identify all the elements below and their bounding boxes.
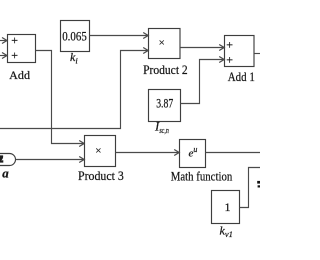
svg-text:Add 1: Add 1 xyxy=(228,69,255,84)
partial block marks at right edge xyxy=(257,181,260,188)
wire input 2 to Add xyxy=(0,53,7,59)
svg-text:Add: Add xyxy=(9,68,30,82)
wire input port to Product 3 input 2 xyxy=(16,157,85,163)
wire from left edge to Product 2 input 2 xyxy=(0,48,148,129)
wire kv1 output to right edge xyxy=(240,168,261,208)
svg-text:+: + xyxy=(11,48,18,62)
block ki gain value 0.065 xyxy=(61,21,90,52)
block Isc,n constant 3.87 xyxy=(149,90,181,122)
svg-text:1: 1 xyxy=(225,200,231,214)
wire ki output to Product 2 input 1 xyxy=(90,33,149,39)
svg-text:0.065: 0.065 xyxy=(62,28,87,43)
svg-text:Math function: Math function xyxy=(171,168,233,183)
svg-text:3.87: 3.87 xyxy=(156,97,173,111)
block Add 1 (sum) xyxy=(225,36,255,67)
block kv1 constant 1 xyxy=(212,191,240,224)
svg-text:×: × xyxy=(95,145,101,157)
wire Add output to Product 3 input 1 xyxy=(36,51,85,147)
svg-text:a: a xyxy=(2,166,9,181)
wire 3.87 output to Add 1 input 2 xyxy=(181,57,225,104)
svg-text:×: × xyxy=(159,37,165,49)
svg-text:+: + xyxy=(226,53,233,67)
svg-text:Product 3: Product 3 xyxy=(78,168,124,183)
block Add (sum) xyxy=(8,33,36,63)
block Math function exp xyxy=(180,140,206,168)
wire Math function output stub xyxy=(206,152,261,154)
svg-text:+: + xyxy=(226,37,233,51)
wire Product 3 output to Math function input xyxy=(116,150,180,156)
svg-text:+: + xyxy=(11,33,18,47)
wire input 1 to Add xyxy=(0,38,7,44)
input port oval (port 2) xyxy=(0,154,16,166)
svg-text:Product 2: Product 2 xyxy=(143,62,188,77)
block Product 3 xyxy=(85,136,116,167)
wire Product 2 output to Add 1 input 1 xyxy=(180,45,224,51)
wire Add 1 output stub xyxy=(254,53,260,55)
block Product 2 xyxy=(149,29,181,59)
